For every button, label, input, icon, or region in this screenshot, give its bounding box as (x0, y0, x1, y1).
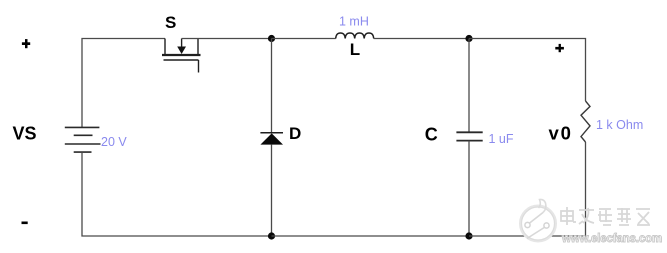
svg-text:1 k Ohm: 1 k Ohm (596, 118, 643, 132)
wire (bottom rail diode node to cap node) (272, 235, 470, 237)
capacitor C bottom lead (468, 141, 470, 236)
label - (source negative terminal) (22, 222, 28, 225)
svg-text:D: D (289, 124, 301, 143)
inductor L (336, 33, 374, 39)
wire (MOSFET drain to diode top node) (182, 38, 272, 40)
svg-text:VS: VS (13, 124, 37, 144)
label + (output positive) (555, 44, 564, 52)
wire (diode anode to bottom node) (271, 145, 273, 236)
watermark text (Chinese calligraphy approximation) (561, 207, 650, 225)
junction node (diode top) (268, 35, 275, 42)
svg-text:1 uF: 1 uF (489, 132, 514, 146)
transistor S (MOSFET switch) (162, 39, 201, 73)
junction node (capacitor top) (465, 35, 472, 42)
wire (battery top to top-left corner to MOSFET source) (82, 39, 165, 128)
svg-text:www.elecfans.com: www.elecfans.com (561, 233, 662, 245)
svg-text:L: L (350, 40, 360, 59)
battery VS (65, 127, 101, 152)
wire (bottom rail cap node to bottom-right corner up to resistor) (469, 142, 586, 236)
capacitor C (456, 132, 482, 140)
diode D vertical wire (anode/cathode leads) (271, 39, 273, 134)
diode D (260, 133, 283, 145)
wire (cap node to top-right corner down to resistor) (469, 39, 586, 102)
svg-text:20 V: 20 V (101, 135, 127, 149)
svg-text:1 mH: 1 mH (339, 14, 369, 28)
capacitor C top lead (468, 39, 470, 133)
junction node (capacitor bottom) (465, 232, 472, 239)
junction node (diode bottom) (268, 232, 275, 239)
wire (diode node to inductor) (272, 38, 336, 40)
svg-text:v0: v0 (549, 123, 573, 144)
svg-text:C: C (425, 125, 438, 145)
label + (source positive terminal) (22, 39, 30, 48)
svg-text:S: S (165, 13, 176, 32)
watermark logo (elecfans circle) (521, 199, 556, 241)
resistor load 1 k Ohm (581, 101, 590, 142)
wire (inductor to capacitor top node) (374, 38, 469, 40)
wire (battery bottom to bottom-left corner) (82, 152, 272, 236)
